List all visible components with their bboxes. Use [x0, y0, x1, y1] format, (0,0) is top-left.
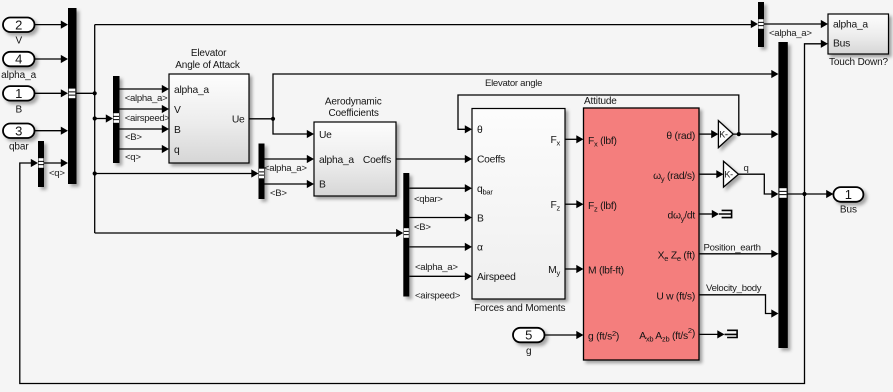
- subsystem Forces and Moments: [472, 109, 566, 314]
- svg-text:Airspeed: Airspeed: [477, 272, 516, 283]
- svg-text:<alpha_a>: <alpha_a>: [264, 163, 307, 174]
- svg-text:θ: θ: [477, 125, 483, 136]
- svg-text:Elevator angle: Elevator angle: [485, 78, 542, 89]
- bus creator MUX1 (main input bus): [68, 8, 77, 184]
- svg-text:<airspeed>: <airspeed>: [415, 291, 461, 302]
- wire gain U2 out q to BUSC: [739, 174, 773, 194]
- svg-text:K-: K-: [724, 169, 733, 179]
- subsystem Aerodynamic Coefficients: [314, 97, 396, 196]
- wire trunk to SEL4: [95, 232, 397, 234]
- arrowheads: [61, 21, 68, 29]
- bus selector SEL_Q (q feedback): [38, 141, 44, 187]
- inport 2 V: [3, 17, 35, 46]
- wire Ue output with junction branches: [249, 74, 772, 134]
- bus selector SEL5 (top right, alpha_a): [758, 2, 764, 47]
- svg-text:Coefficients: Coefficients: [328, 108, 378, 119]
- svg-text:<airspeed>: <airspeed>: [125, 113, 171, 124]
- bus creator BUSC (output bus): [778, 42, 787, 348]
- svg-text:Coeffs: Coeffs: [363, 155, 391, 166]
- junction dot trunk-SEL2: [93, 116, 97, 120]
- svg-text:Ue: Ue: [232, 114, 245, 125]
- svg-text:q: q: [174, 145, 180, 156]
- wire SEL4 airspeed to FM: [409, 275, 465, 277]
- gain U1 K- (theta): [718, 121, 733, 148]
- svg-text:<B>: <B>: [270, 188, 287, 199]
- svg-text:Touch Down?: Touch Down?: [829, 57, 889, 68]
- svg-text:Ue: Ue: [319, 130, 332, 141]
- svg-text:<q>: <q>: [125, 152, 141, 163]
- bus selector SEL3 (to Aerodynamic Coefficients): [259, 144, 265, 200]
- wire FM Fx to Attitude: [565, 138, 577, 140]
- wire port2 to MUX1: [35, 24, 62, 26]
- junction dot trunk-MUX out: [93, 91, 97, 95]
- wire FM My to Attitude: [565, 268, 577, 270]
- junction dot trunk-SEL3: [93, 171, 97, 175]
- svg-text:Aerodynamic: Aerodynamic: [325, 97, 382, 108]
- svg-text:2: 2: [15, 17, 22, 32]
- wire trunk top to SEL5: [95, 24, 752, 26]
- junction dot BUSC out tap: [802, 192, 806, 196]
- junction dot Ue branch: [271, 117, 275, 121]
- wire trunk to SEL2: [95, 118, 107, 120]
- bus selector SEL2 (to Elevator AoA): [113, 76, 120, 163]
- wire Attitude XeZe Position_earth to BUSC: [699, 253, 772, 255]
- inport 3 qbar: [3, 123, 35, 152]
- svg-text:alpha_a: alpha_a: [319, 155, 354, 166]
- wire trunk to SEL3: [95, 173, 252, 175]
- svg-text:ωy (rad/s): ωy (rad/s): [653, 171, 695, 184]
- wire port3 to MUX1: [35, 130, 62, 132]
- svg-text:g: g: [526, 346, 531, 357]
- wire SEL4 B to FM: [409, 217, 465, 219]
- wire Attitude dwy/dt to terminator T1: [699, 213, 713, 215]
- svg-text:B: B: [477, 213, 484, 224]
- svg-text:<B>: <B>: [414, 222, 431, 233]
- svg-text:B: B: [319, 180, 326, 191]
- wire BUSC output to outport Bus: [788, 193, 828, 195]
- svg-text:qbar: qbar: [9, 142, 29, 153]
- svg-text:B: B: [15, 104, 22, 115]
- wire port5 g to Attitude: [545, 334, 578, 336]
- svg-text:3: 3: [15, 123, 22, 138]
- svg-text:5: 5: [525, 328, 532, 343]
- svg-text:<q>: <q>: [49, 168, 65, 179]
- outport 1 Bus: [833, 187, 863, 216]
- wire SEL2 q to Elevator q: [120, 148, 163, 150]
- svg-text:V: V: [15, 36, 22, 47]
- svg-text:M (lbf-ft): M (lbf-ft): [588, 266, 624, 277]
- wire port1 to MUX1: [35, 92, 62, 94]
- wire SEL5 out to Touch Down alpha_a: [764, 23, 822, 25]
- svg-text:U w (ft/s): U w (ft/s): [656, 292, 695, 303]
- wire gain U1 out, branch to FM theta feedback: [458, 95, 772, 134]
- svg-text:1: 1: [845, 187, 852, 202]
- svg-text:θ (rad): θ (rad): [666, 131, 695, 142]
- wire SEL3 B to Aero: [265, 183, 308, 185]
- svg-text:Fz (lbf): Fz (lbf): [588, 201, 617, 214]
- wire tap to Touch Down Bus input: [805, 44, 822, 194]
- junction dot gain U1 out: [737, 132, 741, 136]
- svg-text:B: B: [174, 125, 181, 136]
- wire trunk vertical: [94, 25, 96, 233]
- wire Attitude wy to gain U2: [699, 173, 717, 175]
- wire MUX1 output to trunk: [76, 92, 95, 94]
- svg-text:Angle of Attack: Angle of Attack: [175, 60, 241, 71]
- inport 1 B: [3, 86, 35, 115]
- subsystem Elevator Angle of Attack: [169, 48, 249, 163]
- wire Coeffs to FM: [396, 158, 466, 160]
- subsystem Attitude (red): [584, 96, 700, 360]
- svg-text:Forces and Moments: Forces and Moments: [474, 303, 565, 314]
- svg-text:Coeffs: Coeffs: [477, 155, 505, 166]
- svg-text:1: 1: [15, 86, 22, 101]
- wire FM Fz to Attitude: [565, 203, 577, 205]
- svg-text:<qbar>: <qbar>: [414, 194, 443, 205]
- svg-text:Attitude: Attitude: [584, 96, 617, 107]
- wire Attitude theta to gain U1: [699, 133, 712, 135]
- wire Attitude Axb to terminator T2: [699, 333, 718, 335]
- wire feedback loop bottom: [20, 163, 805, 384]
- subsystem Touch Down?: [828, 14, 889, 68]
- inport 4 alpha_a: [1, 52, 36, 81]
- wire SEL4 qbar to FM: [409, 187, 465, 189]
- svg-text:<alpha_a>: <alpha_a>: [769, 28, 812, 39]
- svg-text:alpha_a: alpha_a: [833, 20, 868, 31]
- svg-text:q: q: [744, 163, 749, 174]
- svg-text:Elevator: Elevator: [191, 48, 227, 59]
- gain U2 K- (q): [724, 161, 739, 187]
- svg-text:V: V: [174, 105, 181, 116]
- svg-text:α: α: [477, 243, 483, 254]
- wire SEL3 alpha_a to Aero: [265, 158, 308, 160]
- svg-text:Position_earth: Position_earth: [704, 243, 761, 254]
- svg-text:Xe Ze (ft): Xe Ze (ft): [658, 251, 695, 264]
- svg-text:Bus: Bus: [840, 205, 857, 216]
- svg-text:<alpha_a>: <alpha_a>: [415, 262, 458, 273]
- svg-text:Bus: Bus: [833, 39, 850, 50]
- wire SEL2 airspeed to Elevator V: [120, 108, 163, 110]
- svg-text:alpha_a: alpha_a: [1, 70, 36, 81]
- terminator T2 (Axb Azb): [725, 330, 738, 339]
- wire SEL2 B to Elevator B: [120, 128, 163, 130]
- wire SEL2 alpha_a to Elevator: [120, 88, 163, 90]
- svg-text:<alpha_a>: <alpha_a>: [125, 93, 168, 104]
- svg-text:<B>: <B>: [125, 132, 142, 143]
- svg-text:K-: K-: [719, 129, 728, 139]
- svg-text:Velocity_body: Velocity_body: [706, 283, 762, 294]
- wire SEL4 alpha_a to FM: [409, 246, 465, 248]
- inport 5 g: [513, 328, 545, 357]
- terminator T1 (dwy/dt): [719, 210, 732, 219]
- bus selector SEL4 (to Forces and Moments): [403, 173, 409, 297]
- wire Attitude Uw Velocity_body to BUSC: [699, 295, 772, 314]
- svg-text:4: 4: [15, 52, 22, 67]
- svg-text:Fx (lbf): Fx (lbf): [588, 136, 617, 149]
- wire SEL_Q to MUX1: [44, 162, 62, 164]
- wire port4 to MUX1: [35, 58, 62, 60]
- svg-text:alpha_a: alpha_a: [174, 85, 209, 96]
